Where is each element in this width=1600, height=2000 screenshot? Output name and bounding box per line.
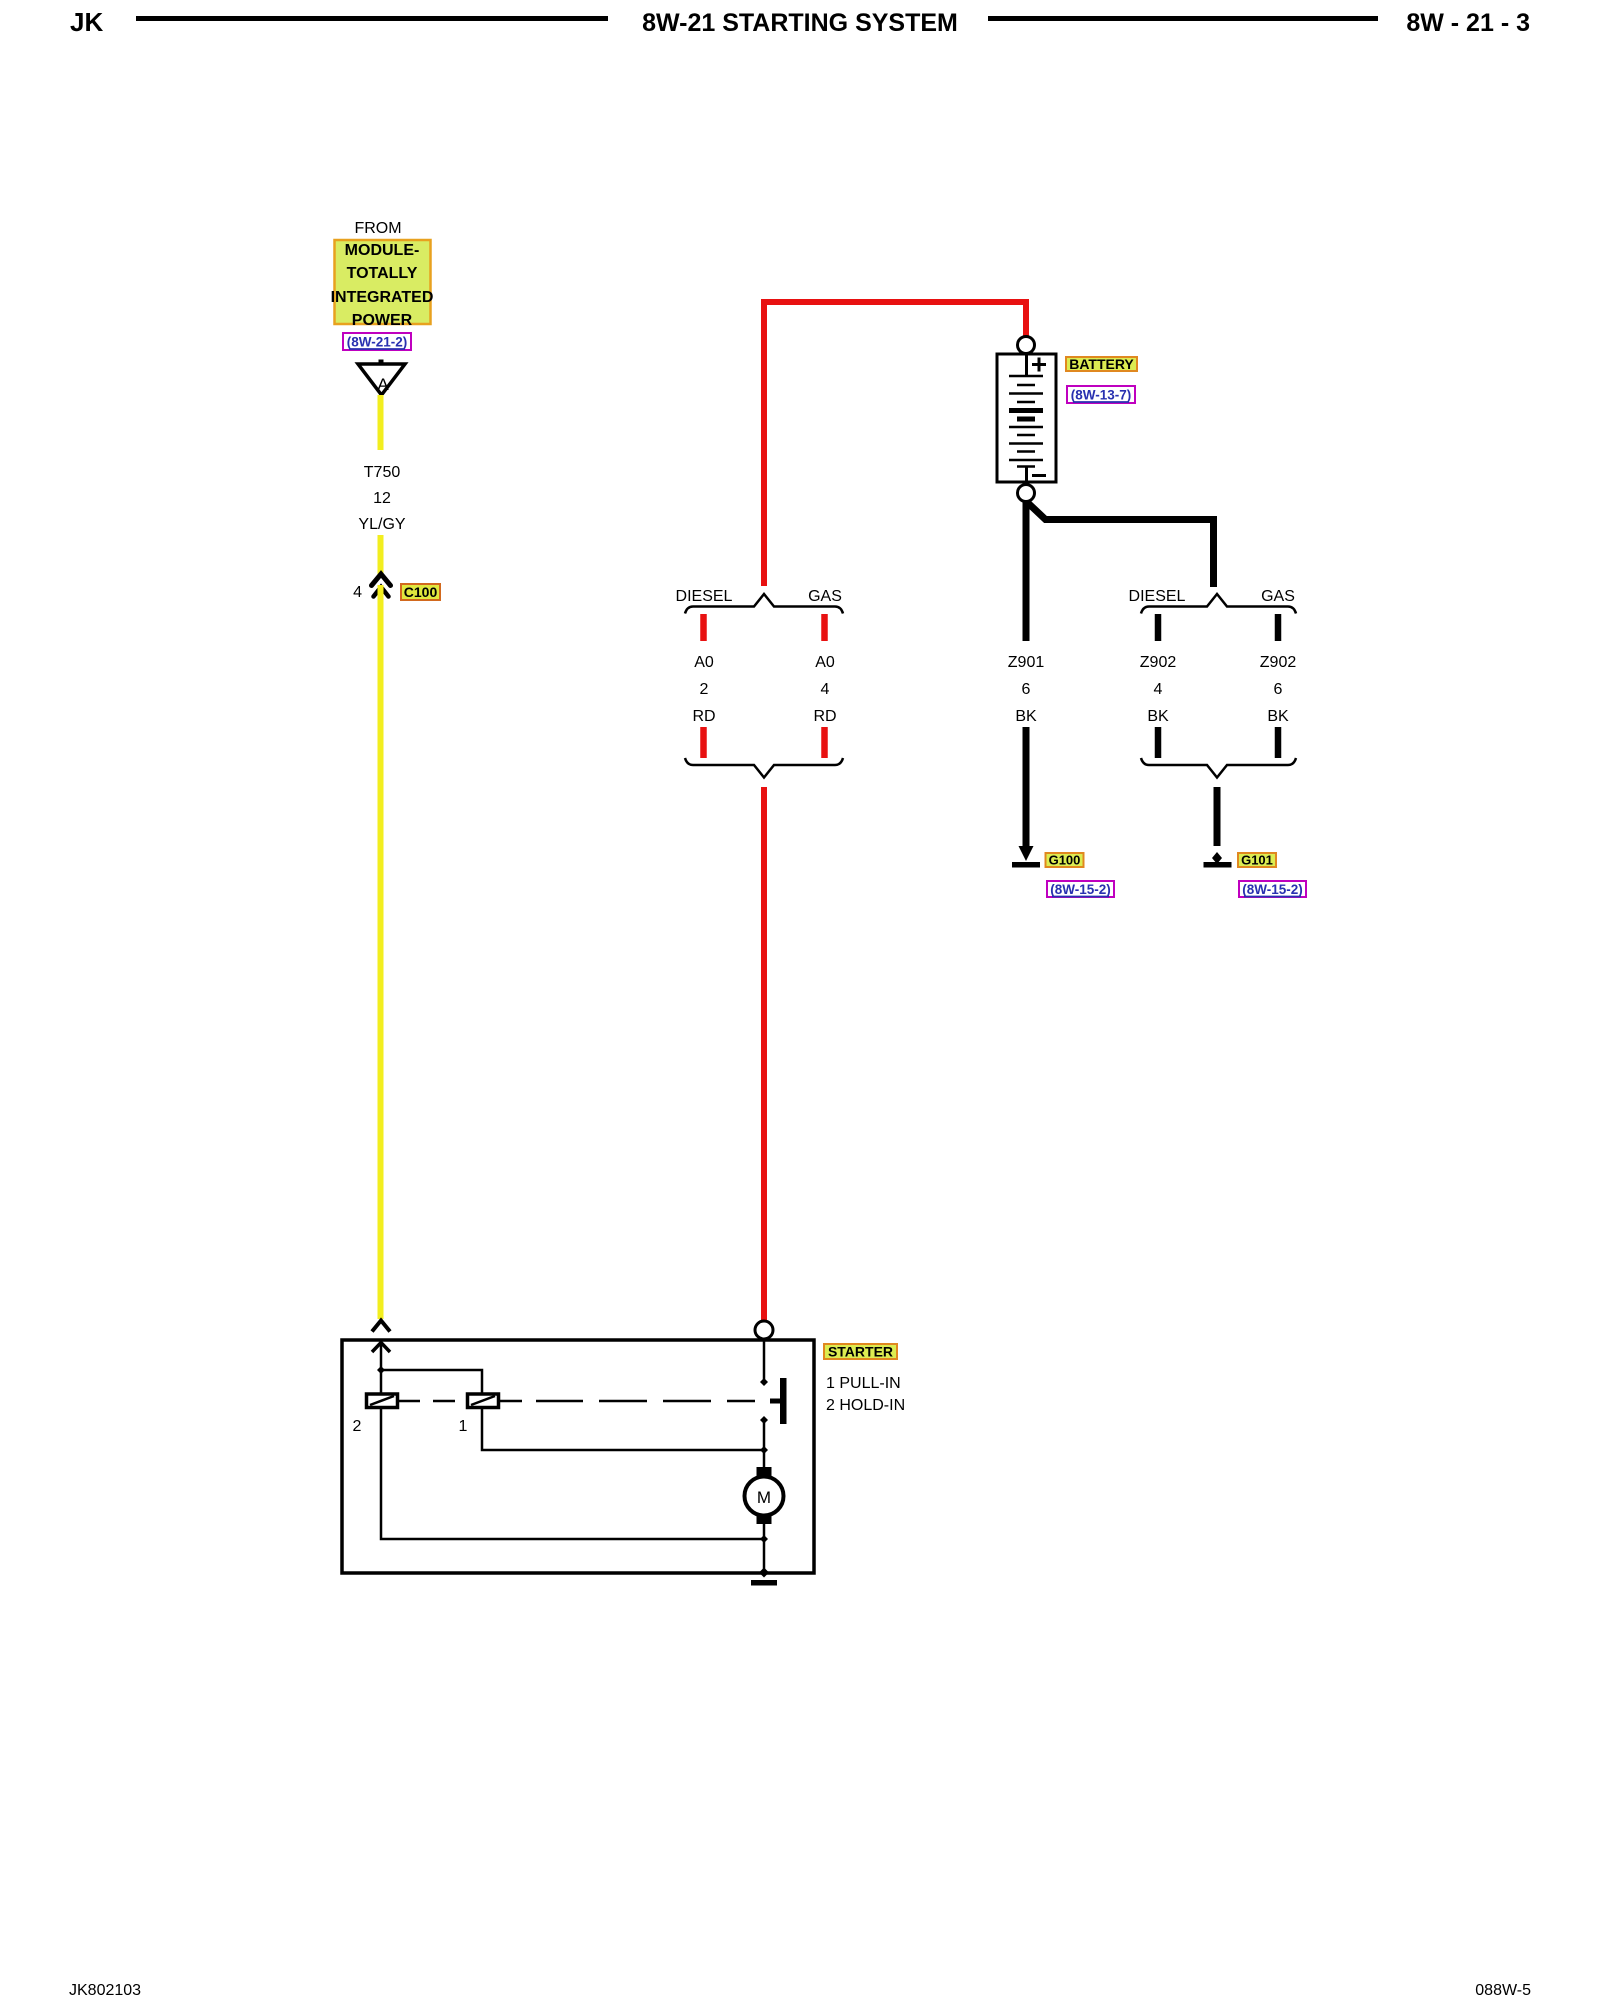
hyperlink (8W-15-2) right: [1239, 881, 1306, 897]
svg-text:JK802103: JK802103: [69, 1982, 141, 1999]
plunger contact arm: [770, 1399, 780, 1404]
label G101: [1238, 853, 1276, 868]
wire label A0 4 RD: [813, 654, 836, 725]
junction dot motor return: [760, 1535, 768, 1543]
svg-text:1 PULL-IN: 1 PULL-IN: [826, 1375, 901, 1392]
battery B+ terminal circle: [1018, 337, 1035, 354]
svg-text:A0: A0: [815, 654, 835, 671]
svg-text:8W-21 STARTING SYSTEM: 8W-21 STARTING SYSTEM: [642, 9, 958, 37]
svg-text:YL/GY: YL/GY: [358, 516, 405, 533]
wire from relay 1 bottom to motor feed: [482, 1408, 764, 1451]
wire T750 yellow segment 2: [378, 535, 384, 577]
svg-text:(8W-15-2): (8W-15-2): [1242, 882, 1303, 897]
relay coil 1: [468, 1394, 499, 1408]
battery body: [997, 354, 1056, 482]
svg-text:BK: BK: [1015, 708, 1037, 725]
svg-text:INTEGRATED: INTEGRATED: [331, 289, 434, 306]
svg-text:1: 1: [459, 1418, 468, 1435]
svg-text:GAS: GAS: [808, 588, 842, 605]
wire label T750 12 YL/GY (upper): [358, 464, 405, 533]
starter box: [342, 1340, 814, 1573]
svg-text:G101: G101: [1241, 853, 1273, 868]
battery negative terminal circle: [1018, 485, 1035, 502]
module U1 TIPM box: [335, 240, 431, 324]
svg-text:M: M: [757, 1488, 771, 1507]
svg-text:BK: BK: [1267, 708, 1289, 725]
svg-text:DIESEL: DIESEL: [676, 588, 733, 605]
junction dot pull-in: [760, 1378, 768, 1386]
wire from motor bottom: [763, 1524, 766, 1572]
svg-text:RD: RD: [813, 708, 836, 725]
svg-text:BATTERY: BATTERY: [1069, 356, 1134, 372]
starter connector chevron at box top: [372, 1321, 390, 1332]
connector C100 label: [401, 584, 440, 600]
svg-text:T750: T750: [364, 464, 401, 481]
header rule right: [988, 16, 1378, 21]
junction dot motor feed: [760, 1446, 768, 1454]
svg-text:(8W-13-7): (8W-13-7): [1071, 388, 1132, 403]
splice brace bottom (red): [685, 758, 843, 778]
starter B+ terminal circle: [755, 1321, 773, 1339]
off-page connector A triangle: [358, 360, 405, 396]
svg-text:2: 2: [700, 681, 709, 698]
wire Z902 4 BK stub lower: [1155, 727, 1162, 758]
svg-text:6: 6: [1274, 681, 1283, 698]
svg-text:4: 4: [353, 584, 362, 601]
wire Z901 black from battery: [1023, 501, 1030, 641]
hyperlink (8W-15-2) left: [1047, 881, 1114, 897]
plunger contact bar: [780, 1378, 787, 1424]
wire label Z902 4 BK: [1140, 654, 1177, 725]
wire label A0 2 RD: [692, 654, 715, 725]
label STARTER: [824, 1344, 897, 1360]
wire to G101: [1214, 787, 1221, 846]
svg-text:4: 4: [1154, 681, 1163, 698]
junction dot: [377, 1366, 385, 1374]
arrowhead diamond at G101: [1212, 852, 1222, 864]
svg-text:6: 6: [1022, 681, 1031, 698]
wire from relay 2 bottom to motor return: [381, 1408, 764, 1540]
label BATTERY: [1066, 356, 1137, 372]
wire to relay 1 top: [381, 1370, 482, 1394]
svg-text:(8W-15-2): (8W-15-2): [1050, 882, 1111, 897]
svg-text:C100: C100: [404, 584, 438, 600]
svg-text:2 HOLD-IN: 2 HOLD-IN: [826, 1397, 905, 1414]
motor M: [745, 1467, 784, 1524]
wire branch to G101 (diagonal + horizontal + vertical): [1028, 503, 1214, 587]
svg-text:MODULE-: MODULE-: [345, 242, 420, 259]
wire battery feed red: top run: [764, 302, 1026, 586]
wire A0 4 RD stub upper: [821, 614, 828, 641]
arrowhead at G100: [1019, 846, 1034, 861]
wire Z902 6 BK stub upper: [1275, 614, 1282, 641]
wire battery feed red: lower run to starter: [761, 787, 767, 1320]
splice brace top (black DIESEL/GAS): [1141, 594, 1296, 614]
wire from B+ circle down: [763, 1339, 766, 1382]
starter internal arrow up (terminal 2 feed): [372, 1342, 390, 1394]
svg-text:STARTER: STARTER: [828, 1344, 893, 1360]
ground bar under starter: [751, 1580, 777, 1586]
wire label Z901 6 BK: [1008, 654, 1045, 725]
ground G100 bar: [1012, 862, 1040, 868]
svg-text:DIESEL: DIESEL: [1129, 588, 1186, 605]
wire Z901 lower segment with arrow: [1023, 727, 1030, 848]
splice brace bottom (black): [1141, 758, 1296, 778]
svg-text:(8W-21-2): (8W-21-2): [347, 335, 408, 350]
junction dot hold-in: [760, 1416, 768, 1424]
wire from hold-in dot down: [763, 1420, 766, 1467]
module U1 TIPM name text: [331, 242, 434, 329]
svg-text:088W-5: 088W-5: [1475, 1982, 1531, 1999]
ground G101 bar: [1204, 862, 1232, 868]
svg-text:A: A: [377, 375, 389, 394]
wire A0 2 RD stub upper: [700, 614, 707, 641]
junction dot at case ground: [759, 1568, 769, 1578]
wire T750 yellow segment 1: [378, 395, 384, 450]
hyperlink (8W-13-7): [1067, 386, 1135, 403]
wire A0 4 RD stub lower: [821, 727, 828, 758]
svg-text:2: 2: [353, 1418, 362, 1435]
svg-text:12: 12: [373, 490, 391, 507]
svg-text:Z902: Z902: [1260, 654, 1297, 671]
connector C100 chevrons: [372, 574, 391, 597]
svg-text:8W - 21 - 3: 8W - 21 - 3: [1406, 9, 1530, 37]
svg-text:A0: A0: [694, 654, 714, 671]
wire Z902 4 BK stub upper: [1155, 614, 1162, 641]
hyperlink (8W-21-2): [343, 333, 411, 350]
svg-text:GAS: GAS: [1261, 588, 1295, 605]
header rule left: [136, 16, 608, 21]
svg-text:TOTALLY: TOTALLY: [347, 265, 418, 282]
svg-text:POWER: POWER: [352, 312, 413, 329]
label G100: [1046, 853, 1084, 868]
splice brace top (red DIESEL/GAS): [685, 594, 843, 614]
svg-text:Z901: Z901: [1008, 654, 1045, 671]
svg-text:RD: RD: [692, 708, 715, 725]
relay coil 2: [367, 1394, 398, 1408]
wire Z902 6 BK stub lower: [1275, 727, 1282, 758]
wire T750 yellow segment 3 (long): [378, 585, 384, 1319]
wire label Z902 6 BK: [1260, 654, 1297, 725]
svg-text:BK: BK: [1147, 708, 1169, 725]
svg-text:FROM: FROM: [354, 220, 401, 237]
svg-text:4: 4: [821, 681, 830, 698]
svg-text:Z902: Z902: [1140, 654, 1177, 671]
dashed actuation line: [398, 1400, 756, 1403]
svg-text:JK: JK: [70, 7, 103, 37]
wire A0 2 RD stub lower: [700, 727, 707, 758]
svg-text:G100: G100: [1049, 853, 1081, 868]
